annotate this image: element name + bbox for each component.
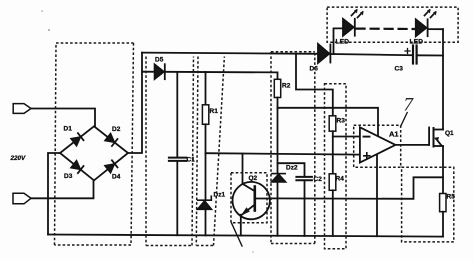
- wire P2 to bridge bottom vertex: [31, 180, 94, 198]
- resistor R3: [329, 116, 336, 131]
- svg-text:LED: LED: [336, 39, 350, 46]
- svg-text:D3: D3: [64, 173, 73, 180]
- wire R1 branch upper: [205, 72, 207, 105]
- svg-text:Q1: Q1: [445, 130, 454, 137]
- svg-text:D4: D4: [112, 174, 121, 181]
- svg-text:A1: A1: [389, 130, 399, 139]
- wire R3 to R4: [332, 131, 334, 174]
- wire Dz2 to ground rail: [277, 182, 279, 236]
- diode D1: [71, 133, 83, 145]
- LED LED2: [416, 19, 427, 36]
- wire op-amp minus input: [333, 136, 360, 138]
- wire R2 bottom to Dz2: [277, 98, 279, 174]
- scan speck: [41, 10, 43, 12]
- box R3/R4 section: [325, 84, 347, 249]
- wire top rail 1 (D6 to C3): [330, 54, 413, 55]
- wire top rail 2 (through D5 to R2): [142, 72, 278, 80]
- wire P1 to bridge top vertex: [31, 109, 95, 127]
- svg-text:Dz2: Dz2: [286, 165, 298, 172]
- diode D5: [155, 64, 164, 79]
- wire bridge diamond: [60, 126, 128, 180]
- wire C1 branch lower: [176, 161, 178, 235]
- diode D6: [318, 44, 329, 63]
- wire C2 to ground rail: [304, 180, 306, 236]
- svg-text:D1: D1: [64, 126, 73, 133]
- capacitor C3: [412, 46, 414, 64]
- svg-text:R2: R2: [282, 83, 291, 90]
- wire Q2 base feedback line: [270, 177, 443, 199]
- svg-text:220V: 220V: [10, 155, 27, 162]
- svg-text:7: 7: [404, 95, 415, 116]
- scan speck: [252, 251, 253, 252]
- diode D3: [71, 161, 83, 173]
- wire R4 to ground rail: [332, 190, 334, 236]
- box Q2 section: [231, 173, 267, 223]
- wire reference line to op-amp plus input: [206, 153, 360, 154]
- wire LED2 to right rail: [429, 28, 443, 30]
- wire dashed LED series link: [357, 28, 415, 31]
- svg-text:D5: D5: [155, 57, 164, 64]
- wire R1 bottom to Dz1: [205, 124, 207, 200]
- wire Dz1 to ground rail: [205, 209, 207, 235]
- wire C1 branch upper: [176, 72, 178, 157]
- wire LED branch riser: [334, 28, 344, 54]
- wire right rail (LED/C3 node down to Q1 drain): [442, 29, 444, 129]
- svg-text:Q2: Q2: [249, 175, 258, 182]
- resistor R5: [440, 194, 446, 212]
- wire top rail 1 (C3 to right): [417, 54, 443, 56]
- box C1 section: [146, 57, 194, 246]
- wire Q2 collector drop: [242, 154, 244, 184]
- wire Q1 source to R5: [442, 146, 444, 194]
- wire op-amp output to Q1 gate: [396, 144, 430, 146]
- zener Dz2: [272, 173, 285, 175]
- box R1/Dz1 section: [196, 57, 224, 246]
- svg-text:D6: D6: [310, 66, 319, 73]
- capacitor C1: [169, 157, 187, 159]
- wire bridge left vertex to ground rail: [48, 153, 60, 235]
- resistor R1: [202, 105, 208, 125]
- transistor Q2: [233, 182, 270, 219]
- svg-text:C3: C3: [395, 66, 404, 73]
- wire R5 to ground rail: [442, 212, 444, 237]
- svg-text:Dz1: Dz1: [214, 192, 226, 199]
- capacitor C2: [296, 176, 312, 178]
- resistor R2: [274, 79, 280, 97]
- transistor Q1 (MOSFET): [428, 128, 430, 146]
- wire divider feed from top rail: [296, 54, 333, 116]
- diode D4: [105, 160, 117, 172]
- wire op-amp V- to ground: [376, 155, 378, 237]
- svg-text:R3: R3: [337, 118, 346, 125]
- annotation leader below Q2: [232, 223, 243, 246]
- box LED section: [327, 7, 458, 42]
- scan speck: [48, 29, 50, 31]
- svg-text:D2: D2: [112, 126, 121, 133]
- svg-text:R4: R4: [336, 176, 345, 183]
- box Dz2/C2 section: [271, 52, 315, 244]
- wire bridge right vertex up to top rails: [128, 53, 142, 153]
- box R5 section: [402, 167, 454, 242]
- svg-text:C1: C1: [187, 157, 196, 164]
- resistor R4: [329, 174, 336, 191]
- wire top rail 1 (to D6): [142, 53, 318, 54]
- dashed section boxes: [55, 7, 459, 249]
- LED LED1: [343, 19, 354, 36]
- zener Dz1: [198, 196, 212, 200]
- wire bottom ground rail: [48, 235, 443, 237]
- diode D2: [105, 134, 117, 146]
- plug terminal P1 (upper AC input): [13, 104, 31, 114]
- wire Dz2 node to C2: [278, 163, 305, 177]
- op-amp A1: [360, 127, 396, 162]
- box bridge section: [55, 43, 134, 245]
- plug terminal P2 (lower AC input): [13, 193, 31, 204]
- svg-text:R1: R1: [210, 108, 219, 115]
- wire op-amp V+ supply from R2: [278, 108, 379, 136]
- box op-amp section: [354, 125, 401, 167]
